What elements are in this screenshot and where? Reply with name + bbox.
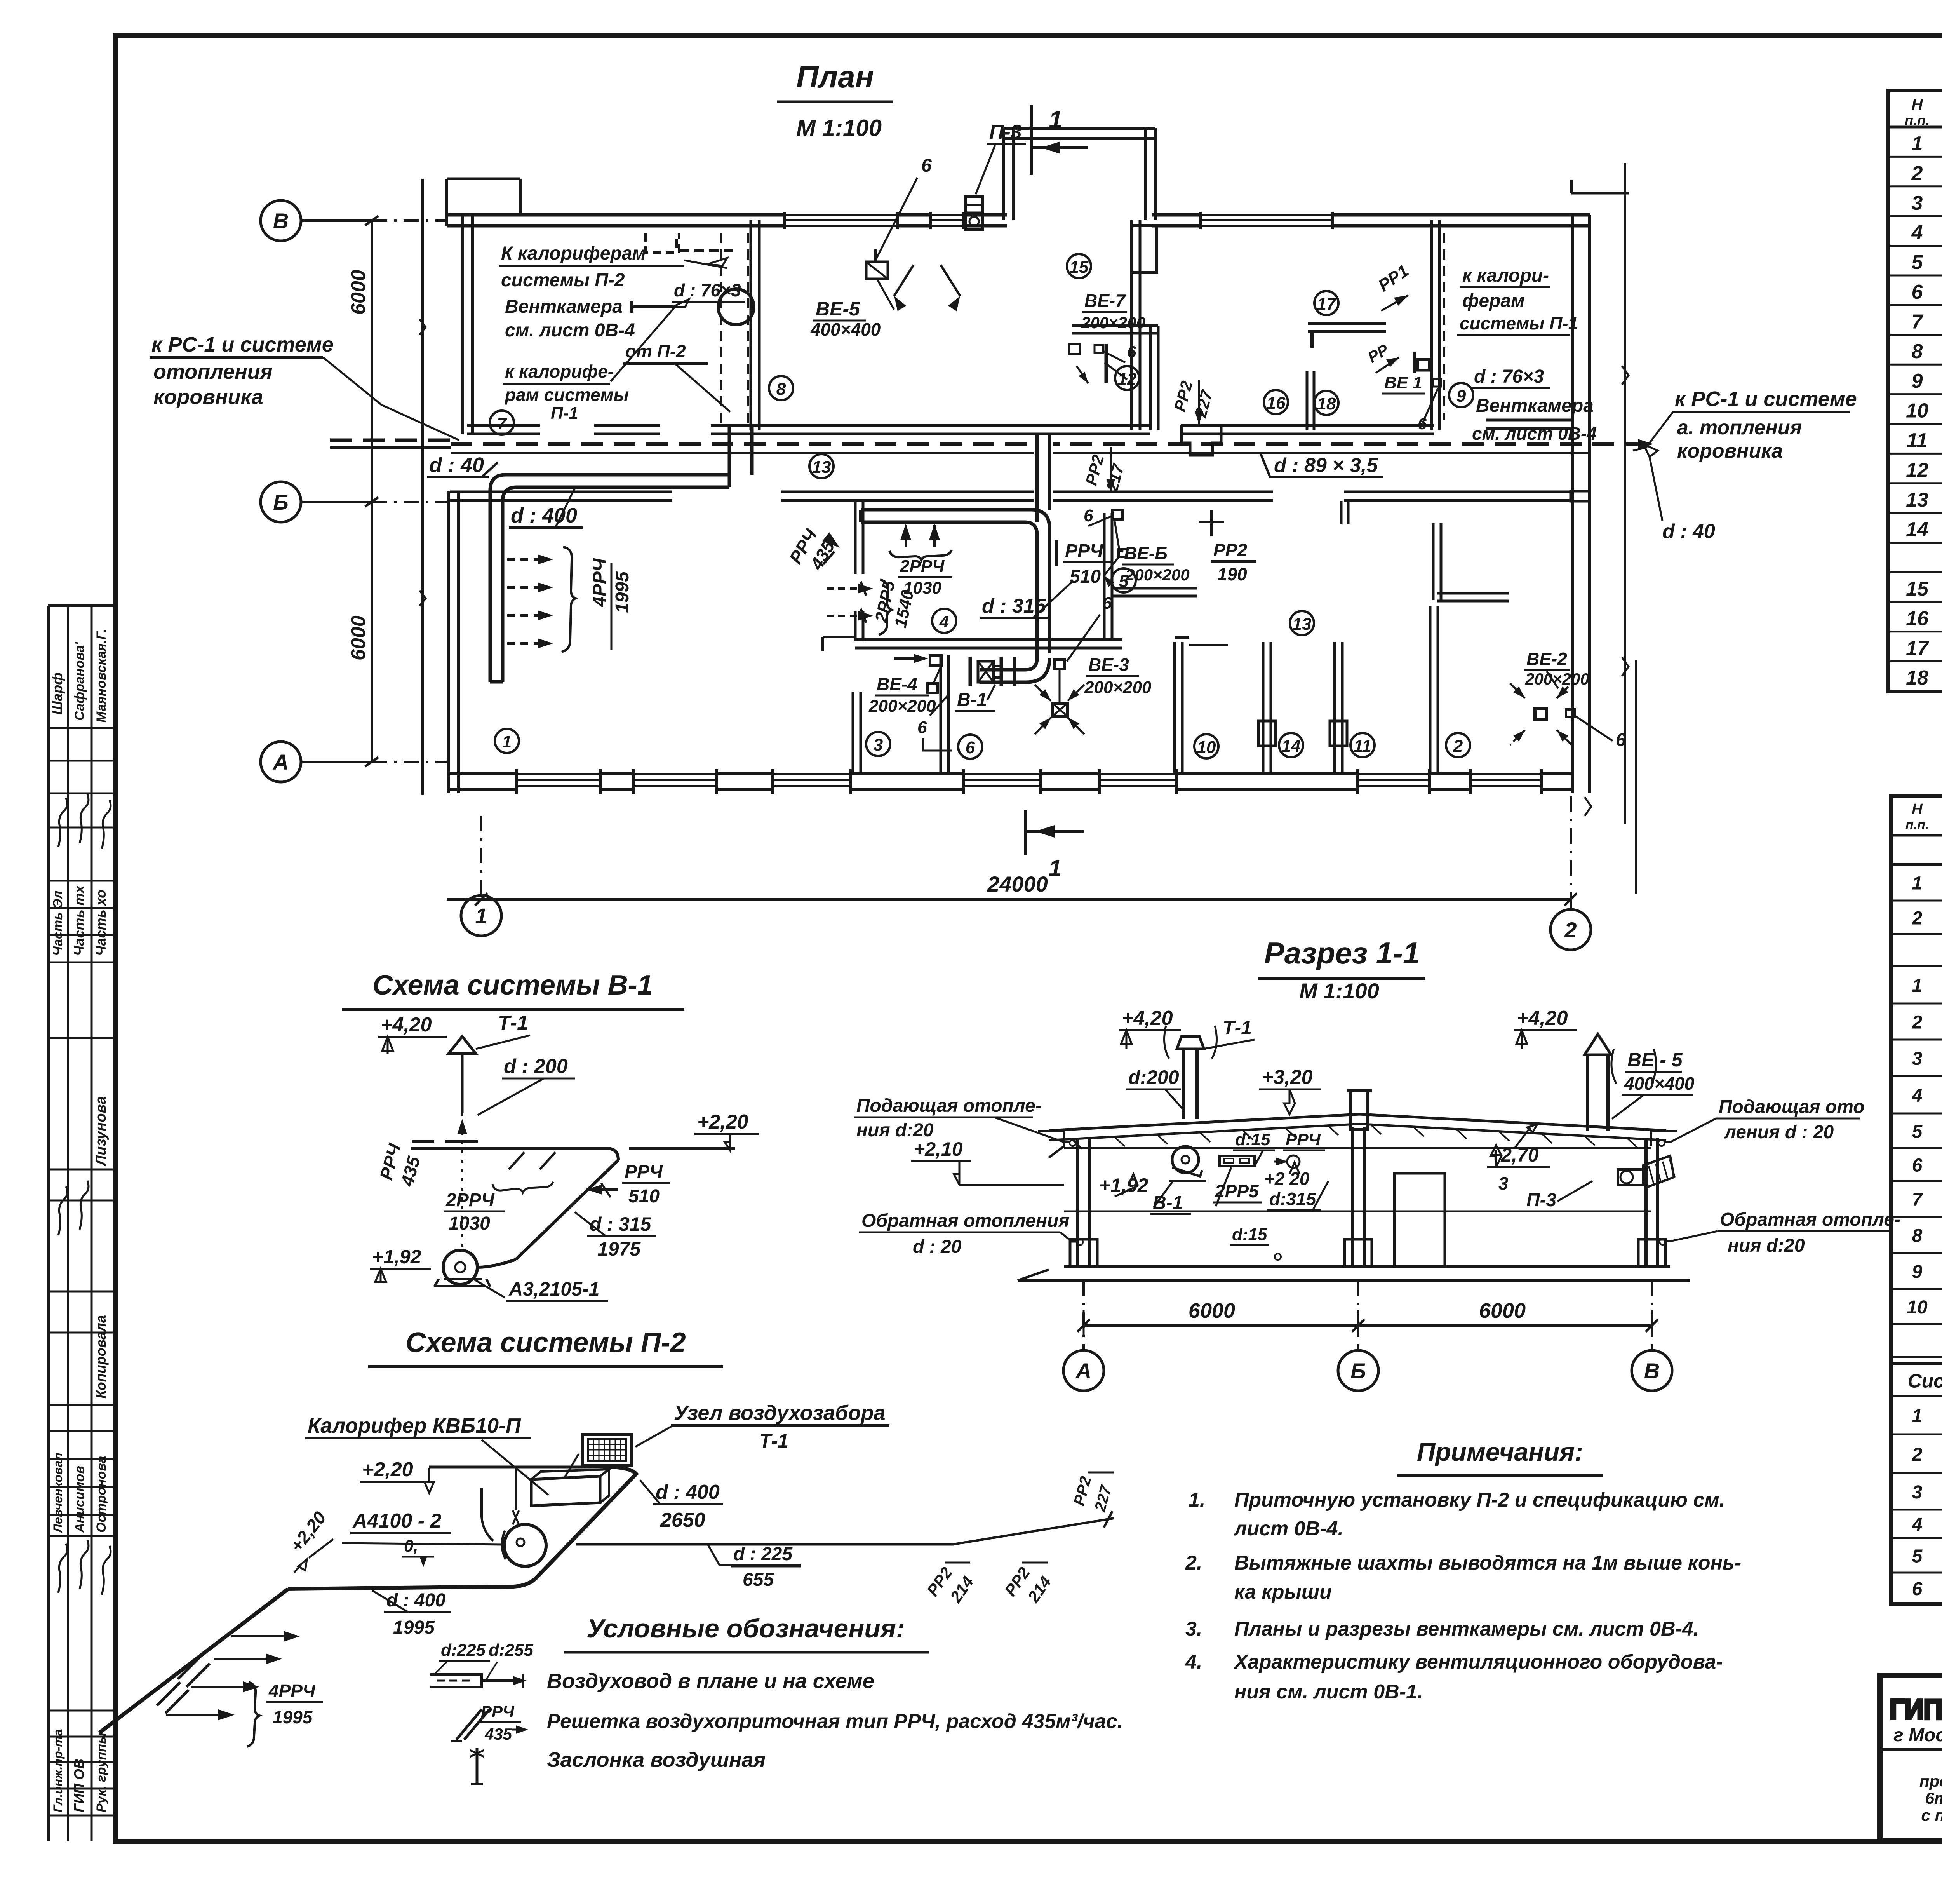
eaves right <box>1651 1131 1677 1146</box>
wall rooms 10|14 <box>1262 642 1265 774</box>
bottom exterior wall <box>450 772 1572 775</box>
svg-text:510: 510 <box>628 1186 660 1207</box>
svg-text:Разрез 1-1: Разрез 1-1 <box>1264 936 1420 970</box>
room circle 13 <box>1290 611 1314 635</box>
svg-text:190: 190 <box>1217 564 1247 584</box>
room circle 7 <box>490 411 514 435</box>
room12 interior arrow <box>1077 366 1088 383</box>
svg-text:Б: Б <box>1350 1359 1366 1383</box>
svg-text:d : 225: d : 225 <box>733 1544 793 1564</box>
svg-text:ВЕ-Б: ВЕ-Б <box>1124 543 1168 563</box>
P2 4RR4 1995 label bottom <box>247 1682 259 1747</box>
svg-text:см. лист 0В-4: см. лист 0В-4 <box>1472 423 1597 444</box>
pilaster lower right corner <box>1571 491 1589 501</box>
svg-text:А3,2105-1: А3,2105-1 <box>508 1278 600 1300</box>
svg-text:6: 6 <box>1127 343 1136 361</box>
svg-text:1.: 1. <box>1189 1489 1205 1511</box>
svg-text:Т-1: Т-1 <box>1223 1017 1252 1038</box>
svg-text:Узел воздухозабора: Узел воздухозабора <box>674 1401 886 1425</box>
wall room7-room8 <box>750 220 752 430</box>
svg-text:d:15: d:15 <box>1235 1130 1270 1149</box>
svg-text:d:225: d:225 <box>441 1641 486 1660</box>
room circle 9 <box>1449 383 1473 407</box>
svg-text:9: 9 <box>1912 1262 1923 1282</box>
chimney VE-5 <box>1586 1055 1589 1131</box>
leader from text to pipe <box>323 357 459 440</box>
svg-text:РР2: РР2 <box>1082 453 1107 487</box>
svg-text:РР1: РР1 <box>1375 261 1412 295</box>
svg-text:Подающая ото: Подающая ото <box>1719 1097 1865 1117</box>
duct d315 upper stub to corridor <box>1035 435 1039 522</box>
svg-text:15: 15 <box>1070 258 1089 277</box>
svg-text:17: 17 <box>1317 294 1337 314</box>
svg-text:Решетка воздухоприточная тип: Решетка воздухоприточная тип РРЧ, расход… <box>547 1710 1123 1733</box>
svg-text:В-1: В-1 <box>957 690 987 710</box>
svg-text:2: 2 <box>1912 908 1923 929</box>
svg-text:3.: 3. <box>1185 1618 1202 1640</box>
svg-text:200×200: 200×200 <box>1081 314 1145 332</box>
tambour 15 protrusion <box>1002 128 1005 220</box>
vertical dimension line left <box>371 221 373 762</box>
svg-text:1975: 1975 <box>597 1238 641 1260</box>
section mark 1 top <box>1030 105 1033 175</box>
svg-text:6: 6 <box>1102 594 1112 613</box>
left exterior wall top block <box>461 215 464 434</box>
P2 calorifier box <box>531 1476 600 1506</box>
svg-text:+2 20: +2 20 <box>1264 1169 1310 1189</box>
svg-text:6000: 6000 <box>347 270 370 315</box>
room8 window arrows <box>894 265 914 296</box>
svg-text:П-3: П-3 <box>989 121 1022 143</box>
svg-text:Часть тх: Часть тх <box>71 885 87 956</box>
P2 d225 655 label <box>708 1544 801 1565</box>
svg-text:ГИП ОВ: ГИП ОВ <box>71 1759 87 1812</box>
svg-text:А4100 - 2: А4100 - 2 <box>352 1510 441 1532</box>
svg-text:Лизунова: Лизунова <box>93 1096 109 1167</box>
svg-text:+2,20: +2,20 <box>286 1507 330 1556</box>
P2 grille slashes on diagonal <box>178 1656 201 1679</box>
svg-text:к РС-1 и системе: к РС-1 и системе <box>151 333 334 356</box>
title block horizontals <box>1880 1748 1942 1751</box>
svg-text:+4,20: +4,20 <box>1517 1007 1568 1030</box>
V1 diagonal duct <box>516 1160 618 1259</box>
duct d315 white-out <box>1034 435 1053 505</box>
V1 left end dashes <box>412 1140 434 1143</box>
roof ticks <box>1072 1139 1082 1149</box>
svg-text:1: 1 <box>475 904 487 928</box>
svg-text:лист 0В-4.: лист 0В-4. <box>1233 1517 1343 1540</box>
svg-text:d : 89 × 3,5: d : 89 × 3,5 <box>1274 454 1378 477</box>
arrow into VE-4 <box>894 657 921 660</box>
svg-text:4: 4 <box>1912 1515 1923 1535</box>
svg-text:ВЕ-5: ВЕ-5 <box>816 298 860 320</box>
room4 left wall <box>854 501 857 574</box>
svg-text:+1,92: +1,92 <box>372 1246 421 1268</box>
signature squiggles <box>58 798 67 847</box>
duct crossing corridor vertical <box>726 435 755 461</box>
svg-text:13: 13 <box>812 458 831 477</box>
svg-text:ферам: ферам <box>1462 291 1525 311</box>
room7 dashed duct channel <box>720 233 722 425</box>
V1 riser <box>461 1054 464 1113</box>
svg-text:6: 6 <box>1912 281 1923 303</box>
svg-text:РР2: РР2 <box>1213 540 1247 560</box>
corridor bottom wall / lower block top wall <box>450 491 672 493</box>
svg-text:Часть хо: Часть хо <box>93 890 109 956</box>
axis circles section <box>1082 1280 1085 1350</box>
room circle 12 <box>1115 366 1139 390</box>
svg-text:12: 12 <box>1906 459 1928 481</box>
svg-text:24000: 24000 <box>987 872 1048 896</box>
svg-text:Примечания:: Примечания: <box>1417 1437 1583 1466</box>
label VE-4 <box>930 655 941 665</box>
svg-text:2РРЧ: 2РРЧ <box>900 557 945 576</box>
svg-text:10: 10 <box>1907 1297 1928 1318</box>
svg-text:Схема системы П-2: Схема системы П-2 <box>405 1327 686 1358</box>
axis circle 1 bottom <box>461 895 501 936</box>
right dimension column <box>1624 163 1626 824</box>
svg-text:d : 40: d : 40 <box>429 453 484 477</box>
svg-text:ния см. лист 0В-1.: ния см. лист 0В-1. <box>1234 1681 1423 1703</box>
svg-text:d : 400: d : 400 <box>511 504 577 527</box>
grille 2RR5 in section <box>1220 1156 1255 1166</box>
svg-text:РРЧ: РРЧ <box>1065 541 1103 561</box>
room2 left wall <box>1429 606 1432 774</box>
corridor top wall <box>467 424 540 427</box>
svg-text:6: 6 <box>1912 1155 1923 1176</box>
axis circles left <box>261 200 301 241</box>
svg-text:+4,20: +4,20 <box>381 1014 432 1036</box>
P2 duct top line <box>429 1466 607 1469</box>
d40 dashed heating line left outside <box>330 439 451 442</box>
svg-text:+2,10: +2,10 <box>914 1138 963 1160</box>
svg-text:производительностью: производительностью <box>1919 1772 1942 1790</box>
svg-text:8: 8 <box>776 380 786 399</box>
svg-text:6: 6 <box>921 155 932 176</box>
svg-text:+3,20: +3,20 <box>1262 1066 1313 1089</box>
svg-text:1: 1 <box>1912 1406 1923 1427</box>
mid roof vent <box>1351 1091 1368 1130</box>
room7 heat pipe symbol <box>632 305 673 308</box>
dimension line 24000 <box>447 898 1571 901</box>
svg-text:2РРЧ: 2РРЧ <box>445 1190 495 1211</box>
svg-text:4: 4 <box>939 612 949 631</box>
svg-text:4РРЧ: 4РРЧ <box>268 1681 316 1701</box>
RR4 symbol mid <box>1287 1155 1300 1168</box>
svg-text:2: 2 <box>1911 162 1923 185</box>
wall room8-room15 <box>1130 220 1133 430</box>
room9 dashed duct <box>1443 233 1445 420</box>
RR5 dashed arrows into room4 <box>827 587 857 590</box>
PP2 190 in room 13 right <box>1210 510 1213 536</box>
svg-text:3: 3 <box>1912 1482 1923 1503</box>
floor line <box>1064 1265 1670 1268</box>
room table outer <box>1888 91 1942 692</box>
room circle 5 <box>1112 568 1136 592</box>
svg-text:2: 2 <box>1912 1444 1923 1465</box>
legend valve symbol <box>476 1748 479 1784</box>
svg-text:Шарф: Шарф <box>49 672 65 715</box>
svg-text:Воздуховод в плане и на схеме: Воздуховод в плане и на схеме <box>547 1669 874 1693</box>
svg-text:РР2: РР2 <box>1170 379 1196 413</box>
column A <box>1076 1138 1079 1266</box>
svg-text:16: 16 <box>1267 394 1286 413</box>
svg-text:0,: 0, <box>404 1536 418 1556</box>
room circle 11 <box>1350 733 1375 757</box>
room circle 1 <box>495 729 519 753</box>
svg-text:системы П-2: системы П-2 <box>501 270 625 291</box>
duct d315 room4 <box>861 510 1049 653</box>
svg-text:ВЕ-4: ВЕ-4 <box>877 674 917 694</box>
svg-text:1: 1 <box>502 732 512 751</box>
svg-text:9: 9 <box>1456 387 1466 406</box>
svg-text:7: 7 <box>1912 310 1924 333</box>
svg-text:4: 4 <box>1911 221 1923 244</box>
svg-text:2: 2 <box>1912 1012 1923 1033</box>
svg-text:+2,20: +2,20 <box>697 1111 748 1133</box>
svg-text:3: 3 <box>1498 1173 1509 1193</box>
V1 T-1 cone <box>449 1036 476 1054</box>
svg-text:а. топления: а. топления <box>1677 416 1802 439</box>
signature strip columns <box>47 606 50 1841</box>
V1 small slashes <box>509 1152 524 1169</box>
svg-text:ВЕ-7: ВЕ-7 <box>1084 291 1126 311</box>
svg-text:Гл.инж.пр-та: Гл.инж.пр-та <box>51 1729 65 1812</box>
svg-text:9: 9 <box>1912 370 1923 392</box>
room circle 15 <box>1067 254 1091 278</box>
room16-18 wall <box>1306 371 1309 430</box>
svg-text:отопления: отопления <box>153 360 273 383</box>
svg-text:6: 6 <box>917 718 927 737</box>
svg-text:Схема системы В-1: Схема системы В-1 <box>372 970 653 1001</box>
svg-text:d:15: d:15 <box>1232 1225 1267 1244</box>
left exterior wall lower block <box>447 491 450 793</box>
svg-text:ВЕ-2: ВЕ-2 <box>1526 649 1567 669</box>
title block outer <box>1880 1676 1942 1840</box>
leader lines room7 <box>684 260 727 268</box>
svg-text:План: План <box>796 59 874 94</box>
room circle 18 <box>1314 391 1338 415</box>
svg-text:d : 400: d : 400 <box>656 1481 720 1503</box>
svg-text:ления d : 20: ления d : 20 <box>1724 1122 1834 1143</box>
svg-text:ВЕ 1: ВЕ 1 <box>1384 373 1422 392</box>
svg-text:d:315: d:315 <box>1269 1189 1317 1209</box>
svg-text:ния d:20: ния d:20 <box>1728 1235 1805 1256</box>
svg-text:227: 227 <box>1091 1483 1115 1514</box>
VE-3 grille <box>1055 660 1065 669</box>
svg-text:+2,20: +2,20 <box>362 1458 413 1481</box>
svg-text:ВЕ - 5: ВЕ - 5 <box>1627 1049 1683 1071</box>
V1 horizontal duct <box>411 1148 618 1160</box>
svg-text:5: 5 <box>1119 572 1129 591</box>
svg-text:Венткамера: Венткамера <box>505 296 623 317</box>
leader d40 right <box>1643 444 1658 457</box>
thin return line corridor <box>451 452 1589 454</box>
svg-text:1: 1 <box>1912 132 1923 155</box>
svg-text:510: 510 <box>1070 566 1101 587</box>
svg-text:d:200: d:200 <box>1128 1066 1179 1088</box>
svg-text:d : 40: d : 40 <box>1662 520 1715 543</box>
svg-text:Венткамера: Венткамера <box>1476 395 1594 416</box>
svg-text:7: 7 <box>1912 1190 1923 1210</box>
room4 right wall (room5) <box>1103 513 1106 639</box>
svg-text:Б: Б <box>273 490 289 514</box>
svg-text:В: В <box>273 209 289 233</box>
room circle 13 <box>809 454 834 478</box>
room9 bottom wall <box>1486 419 1572 422</box>
svg-text:К калориферам: К калориферам <box>501 243 646 264</box>
duct elbow to fan B-1 <box>980 658 1037 670</box>
P-3 duct slanted <box>1643 1156 1674 1187</box>
svg-text:5: 5 <box>1912 1546 1923 1567</box>
svg-text:400×400: 400×400 <box>810 319 881 340</box>
svg-text:Анисимов: Анисимов <box>72 1466 87 1533</box>
right exterior wall <box>1571 215 1574 793</box>
svg-text:1: 1 <box>1912 873 1923 894</box>
svg-text:d:255: d:255 <box>489 1641 533 1660</box>
P2 inner corner line <box>482 1517 493 1541</box>
svg-text:г Москва: г Москва <box>1893 1725 1942 1745</box>
duct elbow in room7 dashed <box>677 233 733 251</box>
P2 horizontal duct right <box>576 1543 954 1546</box>
room10 door line <box>1189 644 1228 646</box>
right break marks bottom <box>1585 797 1591 816</box>
svg-text:А: А <box>1075 1359 1091 1383</box>
top wall windows <box>785 213 897 228</box>
door opening mid <box>1394 1173 1445 1266</box>
svg-text:13: 13 <box>1293 615 1312 634</box>
room circle 8 <box>769 376 793 400</box>
VE-1 grille room17 <box>1418 359 1429 370</box>
svg-text:14: 14 <box>1282 737 1301 756</box>
svg-text:17: 17 <box>1906 637 1929 660</box>
interior beam line <box>1064 1211 1651 1212</box>
top-left corner step <box>445 179 448 226</box>
svg-text:Калорифер КВБ10-П: Калорифер КВБ10-П <box>308 1414 521 1437</box>
svg-text:d : 76×3: d : 76×3 <box>1474 366 1544 387</box>
svg-text:6тонн молока в сутки: 6тонн молока в сутки <box>1925 1789 1942 1807</box>
room circle 14 <box>1279 733 1303 757</box>
svg-text:Обратная отопления: Обратная отопления <box>861 1211 1070 1231</box>
room circle 17 <box>1314 291 1338 315</box>
svg-text:400×400: 400×400 <box>1624 1073 1695 1094</box>
svg-text:Системы вытяжные естественны: Системы вытяжные естественные ВЕ-1, ВЕ-2… <box>1908 1370 1942 1392</box>
svg-text:системы П-1: системы П-1 <box>1460 313 1578 333</box>
svg-text:1995: 1995 <box>273 1707 313 1727</box>
signature strip top <box>48 604 115 607</box>
section dimension line <box>1084 1324 1652 1327</box>
svg-text:Обратная отопле-: Обратная отопле- <box>1720 1209 1900 1230</box>
svg-text:Т-1: Т-1 <box>498 1012 528 1034</box>
svg-text:П-1: П-1 <box>551 404 578 423</box>
svg-text:Маяновская.Г.: Маяновская.Г. <box>94 629 109 723</box>
svg-text:13: 13 <box>1906 489 1928 511</box>
PP2 fitting on wall <box>1182 425 1221 455</box>
room circle 10 <box>1194 734 1218 758</box>
svg-text:РРЧ: РРЧ <box>481 1702 515 1721</box>
svg-text:15: 15 <box>1906 578 1929 600</box>
svg-text:4.: 4. <box>1185 1651 1202 1673</box>
svg-text:Планы и разрезы венткамеры: Планы и разрезы венткамеры см. лист 0В-4… <box>1234 1618 1699 1640</box>
svg-text:Левченковал: Левченковал <box>51 1453 65 1533</box>
svg-text:10: 10 <box>1906 400 1928 422</box>
svg-text:4РРЧ: 4РРЧ <box>590 558 610 607</box>
svg-text:ГИПРОНИСЕЛЬХОЗ: ГИПРОНИСЕЛЬХОЗ <box>1890 1694 1942 1725</box>
svg-text:см. лист 0В-4: см. лист 0В-4 <box>505 320 635 341</box>
label VE-5 room8 <box>866 262 888 279</box>
svg-text:18: 18 <box>1906 667 1928 689</box>
svg-text:Вытяжные шахты выводятся на: Вытяжные шахты выводятся на 1м выше конь… <box>1234 1552 1741 1574</box>
svg-text:Подающая отопле-: Подающая отопле- <box>856 1096 1042 1116</box>
svg-text:Условные обозначения:: Условные обозначения: <box>586 1614 905 1643</box>
4RR4 dashed arrows room1 <box>507 558 542 561</box>
roof slab <box>1049 1114 1666 1131</box>
V1 fan <box>443 1250 477 1284</box>
svg-text:Н: Н <box>1912 96 1923 113</box>
svg-text:Сафранова': Сафранова' <box>72 641 87 721</box>
svg-text:1: 1 <box>1912 976 1923 996</box>
svg-text:Часть Эл: Часть Эл <box>50 891 65 956</box>
top-right porch step <box>1571 192 1629 195</box>
P2 duct corner and diagonal <box>288 1467 636 1589</box>
svg-text:ВЕ-3: ВЕ-3 <box>1088 655 1129 675</box>
room2 top walls L <box>1432 523 1435 600</box>
svg-text:Заслонка воздушная: Заслонка воздушная <box>547 1748 766 1772</box>
svg-text:435: 435 <box>484 1725 512 1743</box>
svg-text:6: 6 <box>1912 1579 1923 1599</box>
d40 dashed heating line corridor <box>451 442 1653 446</box>
P-3 fan in window room8 <box>966 196 983 230</box>
svg-text:8: 8 <box>1912 340 1923 363</box>
secondary dim line left <box>421 179 424 795</box>
svg-text:Рук. группы: Рук. группы <box>94 1733 109 1812</box>
room10 left wall <box>1173 642 1176 774</box>
svg-text:d : 20: d : 20 <box>913 1237 962 1257</box>
svg-text:d : 400: d : 400 <box>386 1590 445 1611</box>
svg-text:В: В <box>1644 1359 1660 1383</box>
svg-text:Остронова: Остронова <box>94 1456 109 1533</box>
chimney T-1 <box>1182 1049 1185 1119</box>
room circle 3 <box>866 732 890 756</box>
svg-text:14: 14 <box>1906 518 1928 541</box>
svg-text:18: 18 <box>1317 394 1336 413</box>
svg-text:3: 3 <box>1912 192 1923 214</box>
svg-text:Характеристику вентиляционног: Характеристику вентиляционного оборудова… <box>1233 1651 1723 1673</box>
VE-2 room2 <box>1535 709 1547 719</box>
svg-text:8: 8 <box>1912 1226 1923 1246</box>
label VE-6 room5 <box>1112 510 1122 519</box>
duct circle in room7 <box>718 289 754 325</box>
svg-text:+4,20: +4,20 <box>1122 1007 1173 1030</box>
svg-text:5: 5 <box>1912 1122 1923 1142</box>
section mark 1 bottom <box>1024 810 1027 855</box>
2RR4 1030 label room4 with up arrows <box>905 525 907 547</box>
svg-text:рам системы: рам системы <box>504 385 629 405</box>
svg-text:П-3: П-3 <box>1526 1190 1557 1211</box>
svg-text:6: 6 <box>1084 506 1093 525</box>
room4 bottom wall <box>855 638 1122 641</box>
svg-text:1995: 1995 <box>393 1617 435 1638</box>
P2 valve mark on duct <box>513 1510 519 1524</box>
column V <box>1644 1138 1648 1266</box>
svg-text:3: 3 <box>874 735 883 754</box>
spec table outer <box>1891 796 1942 1604</box>
svg-text:п.п.: п.п. <box>1905 818 1929 833</box>
svg-text:2: 2 <box>1564 918 1577 942</box>
svg-text:к РС-1 и системе: к РС-1 и системе <box>1675 387 1857 411</box>
svg-text:655: 655 <box>743 1570 774 1590</box>
svg-text:Приточную установку П-2 и с: Приточную установку П-2 и спецификацию с… <box>1234 1489 1725 1511</box>
